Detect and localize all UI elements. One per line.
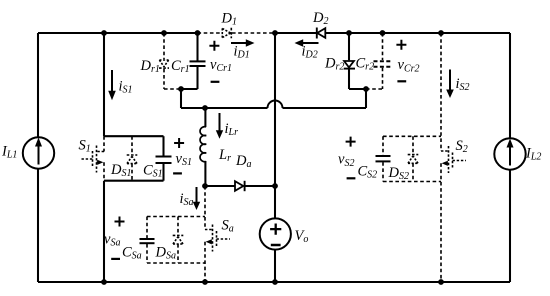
wire S1 drain drop <box>103 33 105 136</box>
wire center column mid <box>274 186 276 218</box>
capacitor CS2 <box>376 136 391 181</box>
node junction (441,282) <box>438 279 444 285</box>
node junction (104,282) <box>101 279 107 285</box>
current arrow iSa <box>193 187 200 210</box>
current arrow iLr <box>216 113 223 139</box>
label vS1 plus <box>174 138 184 148</box>
wire center column lower <box>274 250 276 282</box>
node junction (205,108) <box>202 105 208 111</box>
current arrow iD2 <box>295 39 319 46</box>
diode DSa <box>173 217 184 264</box>
node junction (181,89) <box>178 86 184 92</box>
node junction (275,186) <box>272 183 278 189</box>
diode Da <box>205 181 275 191</box>
capacitor CSa <box>140 217 155 264</box>
diode Dr2 <box>344 33 366 89</box>
label vCr1 minus <box>211 81 220 83</box>
label vCr1 plus <box>209 41 219 51</box>
current source IL1 <box>23 137 54 168</box>
wire Sa cell bottom (dashed) <box>147 262 205 264</box>
label vS2 plus <box>346 137 356 147</box>
label vSa plus <box>115 217 125 227</box>
wire S2 cell bottom (dashed) <box>383 181 441 183</box>
wire left rail upper <box>37 33 39 137</box>
diode DS1 <box>127 136 138 181</box>
node junction (104,33) <box>101 30 107 36</box>
node junction (441,33) <box>438 30 444 36</box>
label vCr2 plus <box>396 40 406 50</box>
diode Dr1 <box>159 33 181 89</box>
transistor S2 (dashed MOSFET, gate right) <box>441 33 466 282</box>
wire top rail left <box>38 32 198 34</box>
wire top rail middle <box>275 32 317 34</box>
node junction (366,89) <box>363 86 369 92</box>
node junction (275,33) <box>272 30 278 36</box>
current arrow iD1 <box>231 39 255 46</box>
current arrow iS1 <box>108 70 116 100</box>
wire resonant node right drop <box>365 89 367 108</box>
wire resonant node left drop <box>180 89 182 108</box>
label vCr2 minus <box>397 80 406 82</box>
wire left rail lower <box>37 169 39 282</box>
voltage source Vo <box>260 218 291 249</box>
transistor S1 <box>82 136 105 181</box>
capacitor Cr1 <box>181 33 206 89</box>
wire S1 cell bottom <box>104 180 164 182</box>
capacitor CS1 <box>156 136 172 181</box>
diode D1 <box>198 28 276 38</box>
wire center column upper <box>274 33 276 186</box>
wire resonant rail left <box>181 107 268 109</box>
wire Sa cell top (dashed) <box>147 216 205 218</box>
current source IL2 <box>494 138 525 169</box>
transistor Sa <box>205 186 230 282</box>
wire bottom rail <box>38 281 510 283</box>
node junction (205,186) <box>202 183 208 189</box>
node junction (164,33) <box>161 30 167 36</box>
inductor Lr <box>200 108 206 186</box>
wire top rail right <box>325 32 510 34</box>
node junction (382.5,33) <box>380 30 386 36</box>
wire right rail lower <box>509 170 511 282</box>
node junction (205,282) <box>202 279 208 285</box>
label vS2 minus <box>347 177 356 179</box>
label vS1 minus <box>173 172 182 174</box>
diode DS2 <box>408 136 419 181</box>
label vSa minus <box>111 258 120 260</box>
node junction (349,33) <box>346 30 352 36</box>
node junction (275,282) <box>272 279 278 285</box>
wire S2 cell top (dashed) <box>383 135 441 137</box>
wire right rail upper <box>509 33 511 138</box>
wire S1 cell top <box>104 135 164 137</box>
capacitor Cr2 <box>366 33 391 89</box>
diode D2 <box>317 28 326 39</box>
wire crossover hop <box>268 101 283 108</box>
wire S1 source drop <box>103 181 105 282</box>
wire resonant rail right <box>283 107 367 109</box>
node junction (197.5,33) <box>195 30 201 36</box>
current arrow iS2 <box>446 70 454 99</box>
